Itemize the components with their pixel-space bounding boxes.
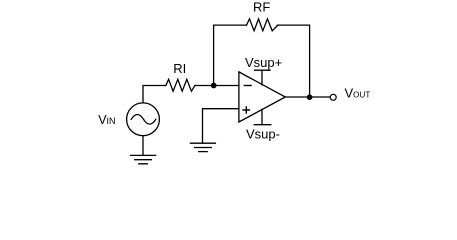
node A junction dot	[211, 83, 217, 89]
op-amp non-inverting input plus symbol	[243, 107, 249, 113]
wire: RF to output node	[278, 25, 310, 97]
wire: node A up to feedback branch top-left	[214, 25, 247, 85]
wire: op-amp output to terminal	[285, 96, 330, 98]
output node junction dot	[307, 94, 313, 100]
terminal VOUT (open circle)	[330, 94, 336, 100]
op-amp inverting input minus symbol	[244, 85, 251, 87]
resistor RF	[247, 19, 278, 31]
source VIN (AC source)	[127, 103, 160, 136]
svg-text:Vsup-: Vsup-	[246, 127, 280, 142]
wire: VIN bottom to ground	[142, 136, 144, 156]
ground (non-inverting input)	[190, 143, 215, 151]
op-amp U1 triangle	[239, 72, 285, 122]
wire: VIN top to RI	[143, 86, 166, 103]
ground (below VIN)	[131, 155, 156, 163]
resistor RI	[166, 79, 195, 91]
wire: ground up and right to non-inverting input	[203, 109, 239, 144]
Vsup- pin of op-amp	[254, 109, 270, 124]
svg-text:Vsup+: Vsup+	[245, 55, 282, 70]
wire: RI to op-amp inverting input	[195, 85, 239, 87]
svg-text:VIN: VIN	[98, 113, 115, 127]
Vsup+ pin of op-amp	[255, 70, 270, 85]
svg-text:VOUT: VOUT	[345, 86, 371, 101]
svg-text:RF: RF	[253, 0, 270, 14]
svg-text:RI: RI	[173, 61, 186, 76]
